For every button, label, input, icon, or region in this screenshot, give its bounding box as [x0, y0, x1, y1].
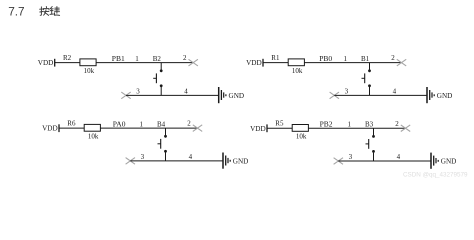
push button B3 actuator tick	[366, 143, 369, 145]
push button B1 actuator tick	[362, 77, 365, 79]
power port VDD (circuit 2)	[246, 59, 263, 67]
svg-text:10k: 10k	[84, 67, 95, 75]
svg-text:GND: GND	[229, 92, 245, 100]
wire VDD to resistor	[267, 127, 292, 129]
svg-text:R1: R1	[271, 54, 280, 62]
svg-text:2: 2	[395, 120, 399, 128]
svg-text:1: 1	[348, 121, 352, 129]
push button B2 pin stub bottom	[160, 87, 162, 95]
svg-text:B3: B3	[365, 121, 374, 129]
svg-text:4: 4	[184, 88, 188, 96]
svg-text:7.7: 7.7	[8, 4, 24, 18]
svg-text:4: 4	[189, 153, 193, 161]
svg-text:GND: GND	[437, 92, 453, 100]
svg-text:10k: 10k	[296, 133, 307, 141]
svg-text:VDD: VDD	[250, 125, 266, 133]
push button B4 pin stub top	[165, 128, 167, 135]
push button B1 pin stub bottom	[369, 87, 371, 95]
ground symbol GND (circuit 3)	[223, 153, 230, 169]
wire VDD to resistor	[59, 127, 84, 129]
svg-text:VDD: VDD	[246, 59, 262, 67]
svg-text:3: 3	[349, 153, 353, 161]
svg-text:PB2: PB2	[320, 120, 333, 129]
svg-text:2: 2	[391, 54, 395, 62]
no-connect cross pin 2	[397, 59, 406, 66]
no-connect cross pin 2	[401, 125, 410, 132]
resistor R6 body	[84, 124, 100, 131]
push button B2 actuator bar	[155, 73, 157, 83]
power port VDD (circuit 1)	[38, 59, 55, 67]
ground symbol GND (circuit 2)	[427, 87, 434, 103]
resistor R1 body	[288, 59, 304, 66]
svg-text:R2: R2	[63, 54, 72, 62]
svg-text:VDD: VDD	[42, 125, 58, 133]
push button B3 actuator bar	[368, 139, 370, 149]
ground symbol GND (circuit 1)	[219, 87, 226, 103]
svg-text:B4: B4	[157, 121, 166, 129]
push button B2 contact dot top	[160, 69, 163, 72]
svg-text:PA0: PA0	[113, 120, 126, 129]
svg-text:1: 1	[135, 55, 139, 63]
no-connect cross pin 3	[334, 158, 343, 165]
svg-text:2: 2	[187, 120, 191, 128]
svg-text:1: 1	[344, 55, 348, 63]
svg-text:VDD: VDD	[38, 59, 54, 67]
push button B4 contact dot bottom	[164, 150, 167, 153]
push button B3 pin stub top	[373, 128, 375, 135]
svg-text:GND: GND	[233, 157, 249, 165]
wire pin 3 to ground	[334, 94, 426, 96]
push button B4 actuator bar	[160, 139, 162, 149]
push button B2 pin stub top	[160, 63, 162, 70]
svg-text:10k: 10k	[88, 133, 99, 141]
push button B3 contact dot bottom	[372, 150, 375, 153]
wire pin 3 to ground	[130, 160, 222, 162]
svg-text:2: 2	[183, 54, 187, 62]
svg-text:GND: GND	[441, 157, 457, 165]
svg-text:3: 3	[345, 88, 349, 96]
wire pin 3 to ground	[338, 160, 430, 162]
no-connect cross pin 2	[189, 59, 198, 66]
no-connect cross pin 3	[126, 158, 135, 165]
svg-text:10k: 10k	[292, 67, 303, 75]
svg-text:R6: R6	[67, 119, 76, 127]
svg-text:3: 3	[136, 88, 140, 96]
wire VDD to resistor	[55, 62, 80, 64]
svg-text:PB0: PB0	[319, 54, 332, 63]
wire resistor to pin 2 end (net PB2)	[308, 127, 405, 129]
wire VDD to resistor	[263, 62, 288, 64]
svg-text:B2: B2	[153, 55, 162, 63]
svg-text:PB1: PB1	[112, 54, 125, 63]
wire resistor to pin 2 end (net PA0)	[100, 127, 197, 129]
push button B4 pin stub bottom	[165, 153, 167, 161]
resistor R2 body	[80, 59, 96, 66]
push button B1 actuator bar	[364, 73, 366, 83]
section title character 按	[40, 7, 49, 16]
svg-text:1: 1	[140, 121, 144, 129]
svg-text:4: 4	[393, 88, 397, 96]
push button B2 contact dot bottom	[160, 84, 163, 87]
power port VDD (circuit 3)	[42, 124, 59, 132]
push button B4 actuator tick	[158, 143, 161, 145]
ground symbol GND (circuit 4)	[431, 153, 438, 169]
wire pin 3 to ground	[126, 94, 218, 96]
no-connect cross pin 2	[193, 125, 202, 132]
resistor R5 body	[292, 125, 308, 132]
push button B1 contact dot top	[368, 69, 371, 72]
push button B1 contact dot bottom	[368, 84, 371, 87]
push button B1 pin stub top	[369, 63, 371, 70]
wire resistor to pin 2 end (net PB0)	[304, 62, 401, 64]
svg-text:CSDN @qq_43279579: CSDN @qq_43279579	[403, 172, 468, 179]
svg-text:3: 3	[141, 153, 145, 161]
svg-text:4: 4	[397, 153, 401, 161]
svg-text:R5: R5	[275, 119, 284, 127]
section title character 键	[50, 7, 60, 16]
wire resistor to pin 2 end (net PB1)	[96, 62, 193, 64]
push button B3 pin stub bottom	[373, 153, 375, 161]
power port VDD (circuit 4)	[250, 124, 267, 132]
svg-text:B1: B1	[361, 55, 370, 63]
push button B3 contact dot top	[372, 135, 375, 138]
no-connect cross pin 3	[330, 92, 339, 99]
no-connect cross pin 3	[121, 92, 130, 99]
push button B4 contact dot top	[164, 135, 167, 138]
push button B2 actuator tick	[153, 77, 156, 79]
